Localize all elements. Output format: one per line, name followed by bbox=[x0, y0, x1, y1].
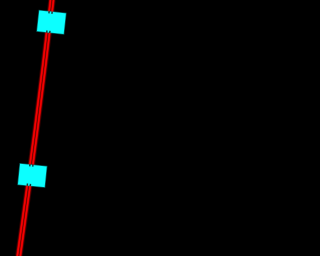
notch rect2 top left bbox=[29, 164, 31, 166]
wire right red stroke halo bbox=[20, 0, 53, 256]
station marker 2 (cyan rectangle) bbox=[18, 164, 47, 187]
notch rect2 top right bbox=[32, 164, 34, 166]
route line: double red track, soft glow built from layered strokes bbox=[17, 0, 53, 256]
notch rect1 top right bbox=[51, 12, 53, 14]
station marker 1 (cyan rectangle) bbox=[37, 10, 66, 34]
station marker 2 fringe bbox=[17, 163, 47, 188]
line crossing notches on marker edges bbox=[27, 11, 52, 186]
wire right red stroke mid bbox=[20, 0, 53, 256]
notch rect2 bottom right bbox=[29, 184, 31, 186]
wire right red stroke core bbox=[20, 0, 53, 256]
wire left red stroke core bbox=[17, 0, 50, 256]
notch rect1 bottom left bbox=[46, 31, 48, 33]
notch rect2 bottom left bbox=[26, 184, 28, 186]
wire left red stroke halo bbox=[17, 0, 50, 256]
station marker 1 fringe bbox=[36, 10, 66, 35]
notch rect1 bottom right bbox=[49, 31, 51, 33]
notch rect1 top left bbox=[48, 11, 50, 13]
wire left red stroke mid bbox=[17, 0, 50, 256]
